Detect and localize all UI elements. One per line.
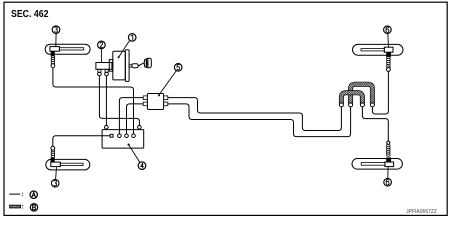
svg-text:SEC. 462: SEC. 462 <box>11 9 49 20</box>
svg-text:JPFIA0667ZZ: JPFIA0667ZZ <box>406 209 437 215</box>
